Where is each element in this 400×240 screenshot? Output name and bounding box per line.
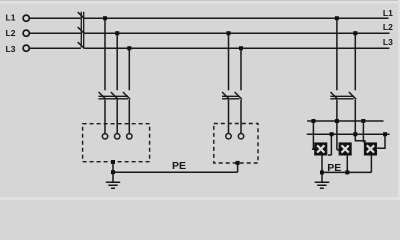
svg-text:L3: L3 [383,37,393,47]
svg-text:L1: L1 [383,8,393,18]
svg-text:L3: L3 [6,44,16,54]
svg-text:PE: PE [172,160,186,172]
svg-text:PE: PE [327,162,341,174]
svg-text:L2: L2 [383,22,393,32]
svg-text:L2: L2 [6,28,16,38]
svg-text:L1: L1 [6,13,16,23]
